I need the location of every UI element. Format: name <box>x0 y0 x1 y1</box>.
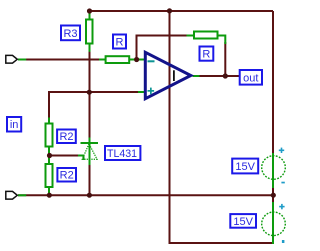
svg-text:R: R <box>202 49 210 61</box>
svg-text:R: R <box>116 37 124 49</box>
svg-text:TL431: TL431 <box>107 148 137 160</box>
svg-text:R2: R2 <box>59 131 73 143</box>
svg-text:in: in <box>10 119 19 131</box>
svg-text:R3: R3 <box>63 28 77 40</box>
svg-text:15V: 15V <box>233 216 253 228</box>
svg-text:15V: 15V <box>235 161 255 173</box>
svg-text:R2: R2 <box>60 170 74 182</box>
svg-text:out: out <box>243 72 258 84</box>
